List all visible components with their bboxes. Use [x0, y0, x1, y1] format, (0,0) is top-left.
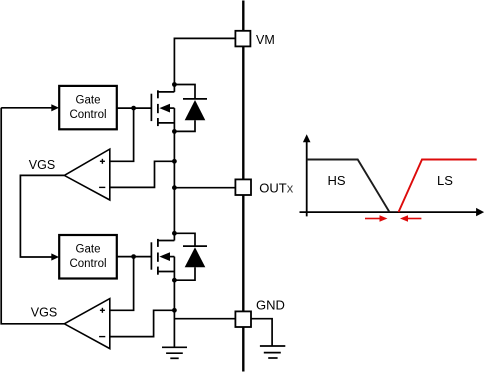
wire OUTx horizontal — [174, 187, 235, 189]
node mid rail OUTx junction — [172, 185, 177, 190]
svg-text:OUTx: OUTx — [259, 181, 293, 196]
wire input to U1 with arrowhead — [1, 107, 52, 109]
trace LS (low side gate waveform) — [399, 160, 477, 213]
terminal OUTx — [235, 179, 251, 195]
node bottom rail jog junction — [172, 308, 177, 313]
svg-text:HS: HS — [328, 173, 346, 188]
wire main VM/OUT/GND bus vertical — [242, 1, 244, 372]
wire A2 - input jog to bottom rail — [110, 310, 175, 336]
graph x-axis — [300, 211, 478, 213]
wire GND terminal to right ground — [251, 319, 272, 346]
svg-text:Control: Control — [69, 109, 106, 121]
node Q2 source — [172, 278, 177, 283]
wire input arrowhead into U2 — [51, 253, 59, 260]
wire A2 + input to gate node — [110, 257, 134, 311]
dead-time arrow right (red) — [365, 218, 381, 220]
svg-text:GND: GND — [256, 297, 285, 312]
node gate Q1 junction — [131, 106, 136, 111]
wire U1 output to gate of Q1 — [117, 107, 152, 109]
node gate Q2 junction — [131, 254, 136, 259]
wire A1 + input to gate node — [110, 108, 134, 161]
svg-text:Control: Control — [69, 258, 106, 270]
terminal VM — [235, 31, 250, 47]
wire feedback line B (A1 output to U2 input) — [20, 175, 64, 257]
transistor Q2 (low-side NMOS) — [151, 233, 174, 280]
diode D2 (body diode of Q2) — [174, 233, 207, 280]
wire U2 output to gate of Q2 — [117, 256, 152, 258]
node Q1 drain — [172, 82, 177, 87]
gate control box U1 (top) — [59, 86, 117, 129]
dead-time arrow left (red) — [407, 218, 421, 220]
svg-text:Gate: Gate — [76, 244, 101, 256]
svg-text:VM: VM — [256, 33, 275, 47]
gate control box U2 (bottom) — [59, 235, 117, 279]
svg-text:VGS: VGS — [31, 306, 57, 320]
svg-text:Gate: Gate — [76, 94, 101, 106]
wire GND horizontal — [174, 318, 235, 320]
node mid rail jog junction — [172, 159, 177, 164]
graph y-axis — [306, 141, 308, 217]
trace HS (high side gate waveform) — [307, 160, 390, 213]
terminal GND — [235, 311, 251, 327]
transistor Q1 (high-side NMOS) — [151, 85, 174, 132]
node Q1 source — [172, 129, 177, 134]
op-amp A2 (bottom VGS comparator) — [64, 299, 110, 349]
wire A1 - input jog to mid rail — [110, 161, 175, 187]
wire drain rail to VM — [174, 38, 235, 84]
wire mid rail (top FET source to bottom FET drain) — [173, 131, 175, 233]
op-amp A1 (top VGS comparator) — [64, 149, 110, 200]
wire feedback line A (bottom VGS output to U1 input) — [1, 108, 64, 324]
diode D1 (body diode of Q1) — [174, 85, 207, 132]
ground (right of GND terminal) — [260, 346, 285, 358]
wire bottom rail to ground — [173, 280, 175, 347]
svg-text:LS: LS — [437, 173, 453, 188]
svg-text:VGS: VGS — [29, 158, 55, 172]
node Q2 drain — [172, 231, 177, 236]
ground (under Q2 source rail) — [162, 347, 187, 358]
